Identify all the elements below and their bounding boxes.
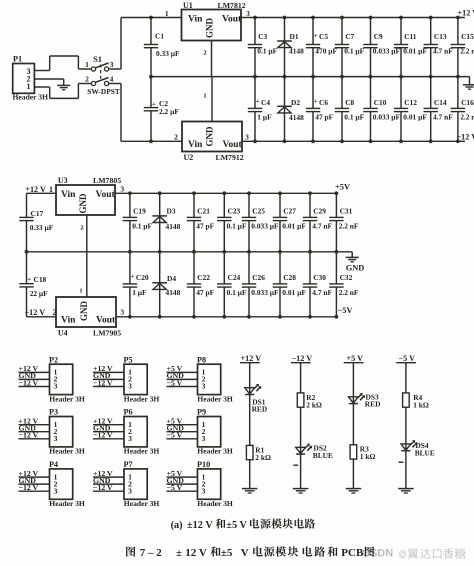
svg-text:+5 V: +5 V xyxy=(347,354,364,363)
svg-text:P7: P7 xyxy=(124,460,133,469)
svg-text:3: 3 xyxy=(202,434,206,443)
svg-text:C18: C18 xyxy=(34,275,47,284)
svg-text:2.2 nF: 2.2 nF xyxy=(339,222,359,231)
svg-text:C27: C27 xyxy=(283,207,296,216)
svg-text:U2: U2 xyxy=(184,153,194,162)
svg-text:GND: GND xyxy=(346,264,365,273)
svg-text:C9: C9 xyxy=(374,32,383,41)
svg-text:−5 V: −5 V xyxy=(167,483,183,492)
svg-text:C7: C7 xyxy=(345,32,354,41)
svg-text:Header 3H: Header 3H xyxy=(124,447,160,456)
svg-text:0.1 µF: 0.1 µF xyxy=(227,222,247,231)
svg-text:P9: P9 xyxy=(197,408,206,417)
svg-text:1: 1 xyxy=(165,9,169,18)
svg-text:+: + xyxy=(152,101,156,108)
svg-text:1 kΩ: 1 kΩ xyxy=(360,452,376,461)
svg-text:1: 1 xyxy=(27,82,31,91)
svg-text:LM7912: LM7912 xyxy=(216,153,244,162)
svg-text:3: 3 xyxy=(54,434,58,443)
svg-text:2 kΩ: 2 kΩ xyxy=(255,453,271,462)
svg-text:0.1 µF: 0.1 µF xyxy=(344,47,364,56)
svg-text:3: 3 xyxy=(202,486,206,495)
svg-text:U3: U3 xyxy=(58,176,68,185)
svg-text:4.7 nF: 4.7 nF xyxy=(312,222,332,231)
svg-text:3: 3 xyxy=(128,382,132,391)
svg-text:4.7 nF: 4.7 nF xyxy=(433,112,453,121)
svg-text:SW-DPST: SW-DPST xyxy=(87,87,120,96)
svg-text:Vout: Vout xyxy=(223,140,243,150)
svg-text:RED: RED xyxy=(365,400,381,409)
svg-text:+5V: +5V xyxy=(335,183,350,192)
svg-text:0.033 µF: 0.033 µF xyxy=(373,112,401,121)
svg-text:+12 V: +12 V xyxy=(458,9,474,18)
svg-text:C26: C26 xyxy=(252,273,265,282)
svg-text:−12 V: −12 V xyxy=(93,378,113,387)
svg-text:C8: C8 xyxy=(345,98,354,107)
svg-text:1 µF: 1 µF xyxy=(132,288,147,297)
svg-text:C15: C15 xyxy=(461,32,474,41)
svg-text:P8: P8 xyxy=(197,355,206,364)
svg-text:−12 V: −12 V xyxy=(292,354,313,363)
svg-text:±: ± xyxy=(176,547,182,559)
svg-text:+12 V: +12 V xyxy=(25,185,46,194)
svg-text:LM7905: LM7905 xyxy=(93,328,121,337)
svg-text:C25: C25 xyxy=(252,207,265,216)
svg-text:U4: U4 xyxy=(58,328,68,337)
svg-text:LM7812: LM7812 xyxy=(218,1,246,10)
svg-text:1 µF: 1 µF xyxy=(257,112,272,121)
svg-text:1: 1 xyxy=(79,288,82,295)
svg-text:3: 3 xyxy=(246,9,250,18)
svg-text:3: 3 xyxy=(128,486,132,495)
svg-text:47 pF: 47 pF xyxy=(196,288,214,297)
svg-text:GND: GND xyxy=(205,126,215,147)
svg-text:−12 V: −12 V xyxy=(19,431,39,440)
svg-text:−12 V: −12 V xyxy=(457,132,474,141)
svg-text:C29: C29 xyxy=(313,207,326,216)
svg-text:P10: P10 xyxy=(197,460,210,469)
svg-text:0.01 µF: 0.01 µF xyxy=(282,222,306,231)
svg-text:0.1 µF: 0.1 µF xyxy=(257,47,277,56)
svg-text:C14: C14 xyxy=(434,98,447,107)
svg-text:GND: GND xyxy=(205,18,215,39)
svg-text:−5 V: −5 V xyxy=(167,431,183,440)
svg-text:Header 3H: Header 3H xyxy=(49,447,85,456)
svg-text:BLUE: BLUE xyxy=(313,451,333,460)
svg-text:Vin: Vin xyxy=(188,140,203,150)
svg-text:C28: C28 xyxy=(283,273,296,282)
svg-text:+: + xyxy=(27,276,31,283)
svg-text:C5: C5 xyxy=(319,32,328,41)
svg-text:Header 3H: Header 3H xyxy=(197,447,233,456)
svg-text:47 pF: 47 pF xyxy=(315,112,333,121)
svg-text:P5: P5 xyxy=(124,355,133,364)
svg-text:3: 3 xyxy=(120,184,124,193)
svg-text:±5 V: ±5 V xyxy=(226,520,247,531)
svg-text:C32: C32 xyxy=(340,273,353,282)
svg-text:3: 3 xyxy=(54,486,58,495)
svg-text:P4: P4 xyxy=(49,460,58,469)
svg-text:4: 4 xyxy=(110,75,114,84)
svg-text:C13: C13 xyxy=(434,32,447,41)
svg-text:−12 V: −12 V xyxy=(25,308,46,317)
svg-text:+: + xyxy=(314,98,318,105)
svg-text:Header 3H: Header 3H xyxy=(49,499,85,508)
svg-text:C31: C31 xyxy=(340,207,353,216)
svg-text:U1: U1 xyxy=(183,1,193,10)
svg-text:D3: D3 xyxy=(167,207,176,216)
svg-text:Header 3H: Header 3H xyxy=(49,394,85,403)
svg-text:Vin: Vin xyxy=(61,316,76,326)
svg-text:4148: 4148 xyxy=(289,113,304,122)
svg-text:12 V: 12 V xyxy=(185,547,207,559)
svg-text:LM7805: LM7805 xyxy=(93,176,121,185)
svg-text:GND: GND xyxy=(78,193,88,214)
svg-text:C22: C22 xyxy=(197,273,210,282)
svg-text:2.2 nF: 2.2 nF xyxy=(460,112,474,121)
svg-text:2.2 nF: 2.2 nF xyxy=(339,288,359,297)
svg-text:1: 1 xyxy=(203,93,206,100)
svg-text:S1: S1 xyxy=(93,55,102,64)
svg-text:C21: C21 xyxy=(197,207,210,216)
svg-text:Header 3H: Header 3H xyxy=(13,92,49,101)
svg-text:C11: C11 xyxy=(404,32,417,41)
svg-text:Header 3H: Header 3H xyxy=(197,394,233,403)
svg-text:C16: C16 xyxy=(461,98,474,107)
svg-text:4148: 4148 xyxy=(166,288,181,297)
svg-text:D1: D1 xyxy=(290,32,299,41)
svg-text:0.1 µF: 0.1 µF xyxy=(227,288,247,297)
svg-text:1 kΩ: 1 kΩ xyxy=(413,401,429,410)
svg-text:−12 V: −12 V xyxy=(19,378,39,387)
svg-text:47 pF: 47 pF xyxy=(196,222,214,231)
svg-text:3: 3 xyxy=(245,133,249,142)
svg-text:D4: D4 xyxy=(167,274,176,283)
svg-text:BLUE: BLUE xyxy=(415,448,435,457)
svg-text:7 – 2: 7 – 2 xyxy=(140,547,163,559)
svg-text:−5V: −5V xyxy=(338,306,353,315)
svg-text:−12 V: −12 V xyxy=(19,483,39,492)
svg-text:0.33 µF: 0.33 µF xyxy=(156,49,180,58)
svg-text:0.1 µF: 0.1 µF xyxy=(132,222,152,231)
svg-text:CSDN: CSDN xyxy=(362,548,393,560)
svg-text:−12 V: −12 V xyxy=(93,483,113,492)
svg-text:C30: C30 xyxy=(313,273,326,282)
svg-text:P2: P2 xyxy=(49,355,58,364)
svg-text:Vout: Vout xyxy=(96,316,116,326)
svg-text:3: 3 xyxy=(110,60,114,69)
svg-text:−5 V: −5 V xyxy=(399,354,416,363)
svg-text:PCB: PCB xyxy=(341,547,364,559)
svg-text:−12 V: −12 V xyxy=(93,431,113,440)
svg-text:4.7 nF: 4.7 nF xyxy=(312,288,332,297)
svg-text:2.2 nF: 2.2 nF xyxy=(460,47,474,56)
svg-text:C24: C24 xyxy=(228,273,241,282)
svg-text:0.033 µF: 0.033 µF xyxy=(251,222,279,231)
svg-text:0.1 µF: 0.1 µF xyxy=(344,112,364,121)
svg-text:4.7 nF: 4.7 nF xyxy=(433,47,453,56)
svg-text:Header 3H: Header 3H xyxy=(124,394,160,403)
svg-text:GND: GND xyxy=(79,301,89,322)
svg-text:1: 1 xyxy=(49,185,53,194)
svg-text:C3: C3 xyxy=(258,32,267,41)
svg-text:C20: C20 xyxy=(136,273,149,282)
svg-text:3: 3 xyxy=(54,382,58,391)
svg-text:2: 2 xyxy=(174,133,178,142)
svg-text:RED: RED xyxy=(252,405,268,414)
svg-text:0.33 µF: 0.33 µF xyxy=(30,223,54,232)
svg-text:−5 V: −5 V xyxy=(167,378,183,387)
svg-text:0.033 µF: 0.033 µF xyxy=(251,288,279,297)
svg-text:0.01 µF: 0.01 µF xyxy=(403,112,427,121)
svg-text:Vout: Vout xyxy=(222,14,242,24)
svg-text:Vin: Vin xyxy=(61,190,76,200)
svg-text:C6: C6 xyxy=(319,98,328,107)
svg-text:C12: C12 xyxy=(404,98,417,107)
svg-text:@: @ xyxy=(398,549,407,559)
svg-text:2: 2 xyxy=(203,50,206,57)
svg-text:22 µF: 22 µF xyxy=(30,289,48,298)
svg-text:3: 3 xyxy=(128,434,132,443)
svg-text:P1: P1 xyxy=(13,55,22,64)
svg-text:1: 1 xyxy=(85,60,89,69)
svg-text:Vout: Vout xyxy=(96,190,116,200)
svg-text:2 kΩ: 2 kΩ xyxy=(306,401,322,410)
svg-text:470 µF: 470 µF xyxy=(315,47,337,56)
svg-text:V: V xyxy=(241,547,249,559)
svg-text:C17: C17 xyxy=(31,209,44,218)
svg-text:C10: C10 xyxy=(374,98,387,107)
svg-text:D2: D2 xyxy=(291,98,300,107)
svg-text:0.01 µF: 0.01 µF xyxy=(282,288,306,297)
svg-text:2: 2 xyxy=(85,75,89,84)
svg-text:3: 3 xyxy=(120,307,124,316)
svg-text:C23: C23 xyxy=(228,207,241,216)
svg-text:+: + xyxy=(314,32,318,39)
svg-text:±12 V: ±12 V xyxy=(187,520,213,531)
svg-text:P6: P6 xyxy=(124,408,133,417)
svg-text:Header 3H: Header 3H xyxy=(124,499,160,508)
svg-text:2: 2 xyxy=(80,225,83,232)
svg-text:3: 3 xyxy=(202,382,206,391)
svg-text:+12 V: +12 V xyxy=(241,354,262,363)
svg-text:C19: C19 xyxy=(133,207,146,216)
svg-text:C4: C4 xyxy=(261,98,270,107)
svg-text:(a): (a) xyxy=(171,520,183,531)
svg-text:Header 3H: Header 3H xyxy=(197,499,233,508)
svg-text:±5: ±5 xyxy=(221,547,233,559)
svg-text:Vin: Vin xyxy=(188,14,203,24)
svg-text:C1: C1 xyxy=(155,32,164,41)
svg-text:+: + xyxy=(131,273,135,280)
svg-text:P3: P3 xyxy=(49,408,58,417)
svg-text:+: + xyxy=(256,98,260,105)
svg-text:4148: 4148 xyxy=(289,47,304,56)
svg-text:4148: 4148 xyxy=(166,222,181,231)
svg-text:2.2 µF: 2.2 µF xyxy=(159,107,179,116)
